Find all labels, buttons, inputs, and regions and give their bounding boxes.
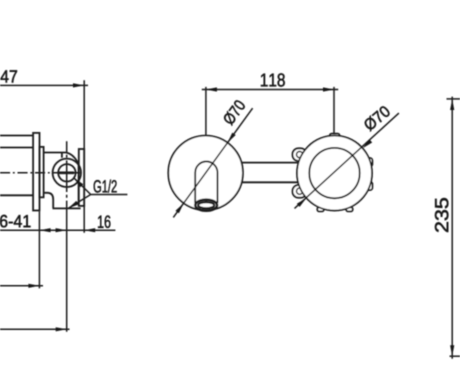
wall body cylinder top line <box>0 135 33 137</box>
diameter leader right circle <box>295 113 399 208</box>
spout escutcheon circle <box>168 136 243 211</box>
arrow 235 bottom <box>450 345 454 356</box>
arrow 16 <box>84 228 95 232</box>
valve slot line <box>59 171 74 174</box>
valve body outline <box>44 153 81 209</box>
arrow d70 right bottom <box>297 198 307 207</box>
spout outlet outer ellipse <box>195 200 217 211</box>
label 47 <box>1 70 17 82</box>
label 6-41 <box>0 215 30 227</box>
arrow 235 top <box>450 99 454 110</box>
horizontal centerline <box>0 172 82 174</box>
label 16 <box>98 216 110 228</box>
mounting ear bottom <box>293 185 307 198</box>
wall tab bottom right <box>346 207 353 211</box>
dimension line 47 <box>0 84 88 86</box>
235 dimension line <box>451 97 453 359</box>
mounting ear top <box>293 148 307 161</box>
label d70 left <box>222 99 246 126</box>
extension line A (flange face) <box>38 212 40 289</box>
wall tab top <box>330 134 340 139</box>
dimension line to flange face <box>0 285 43 287</box>
arrow 118 right <box>323 87 334 91</box>
arrow 118 left <box>206 87 217 91</box>
escutcheon flange side view <box>33 133 39 211</box>
dimension line 36-41 / 16 <box>0 229 115 231</box>
cover plate side view <box>79 149 84 206</box>
connecting bar <box>241 163 299 183</box>
wall tab lower right <box>366 182 373 191</box>
spout outlet inner ellipse <box>198 202 214 208</box>
label 118 <box>261 73 285 86</box>
handle escutcheon inner circle <box>309 148 359 198</box>
wall tab upper right <box>366 158 373 167</box>
arrow at valve axis dim <box>56 327 67 331</box>
extension line 118 right <box>333 87 335 135</box>
diameter leader left circle <box>173 108 252 217</box>
dimension line to valve axis <box>0 328 70 330</box>
valve cartridge inner circle <box>58 164 75 181</box>
arrow d70 left bottom <box>176 203 184 213</box>
arrow d70 left top <box>228 133 236 143</box>
arrow d70 right top <box>363 139 373 148</box>
wall body cylinder bottom line <box>0 194 33 196</box>
arrow G12 lower <box>68 201 79 209</box>
235 top extension tick <box>447 98 460 100</box>
arrow 36-41 right <box>56 228 67 232</box>
wall body cylinder inner step line <box>0 147 33 149</box>
valve vertical centerline <box>66 141 68 198</box>
inner plate side view <box>40 147 44 197</box>
235 bottom extension tick <box>450 355 460 357</box>
handle escutcheon outer circle <box>297 136 372 211</box>
valve cartridge outer circle <box>53 159 81 187</box>
arrow at flange face dim <box>28 284 39 288</box>
extension line C (plate face) <box>83 80 85 232</box>
label 235 <box>435 198 448 232</box>
dimension line 118 <box>202 89 338 91</box>
extension line 118 left <box>205 87 207 136</box>
spout tube front view <box>195 161 217 203</box>
G1/2 leader <box>68 178 127 209</box>
label G1/2 <box>94 180 117 193</box>
arrow 47 right <box>73 83 84 87</box>
arrow G12 upper <box>74 178 83 187</box>
label d70 right <box>362 105 391 132</box>
wall tab bottom left <box>317 207 324 211</box>
extension line B (valve axis) <box>66 201 68 332</box>
arrow 36-41 left <box>40 228 51 232</box>
